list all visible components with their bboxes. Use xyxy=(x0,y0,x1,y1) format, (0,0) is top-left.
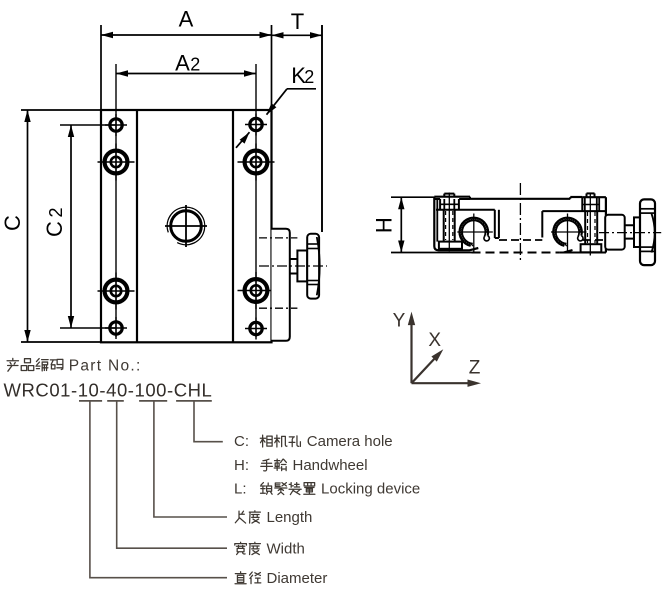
svg-text:H:: H: xyxy=(234,457,249,474)
component : handwheel rim (side view) xyxy=(640,199,655,265)
svg-text:Diameter: Diameter xyxy=(267,570,328,587)
wire : hidden line right of clamp2 dashed xyxy=(583,239,604,241)
component : handwheel shaft (front view) xyxy=(290,259,298,274)
hole : bottom-left counterbored hole xyxy=(98,273,135,310)
screw : right locking screw (side view) xyxy=(581,193,606,256)
wire : leader drop CHL xyxy=(194,401,223,442)
wire : underline bars under code segments xyxy=(79,400,212,402)
node label C : camera hole xyxy=(234,433,393,450)
node axes : coordinate system X Y Z xyxy=(393,310,481,387)
svg-text:2: 2 xyxy=(190,54,200,74)
body : front plate outline xyxy=(101,110,272,342)
hole : bottom-right counterbored hole xyxy=(238,272,275,309)
svg-text:Part No.:: Part No.: xyxy=(69,358,142,375)
wire : vertical center dash-dot line (side view) xyxy=(519,183,521,262)
component : handwheel hub (front view) xyxy=(297,251,307,282)
svg-text:C: C xyxy=(0,215,25,231)
wire : clamp 2 housing bottom foot slant xyxy=(560,250,573,253)
wire : side strip edge x=322 xyxy=(321,25,323,232)
node C2 : dimension label C2 rotated xyxy=(42,207,67,236)
wire : H extension top xyxy=(391,196,434,198)
svg-text:Length: Length xyxy=(267,509,313,526)
wire : C extension top y=110 xyxy=(21,109,101,111)
wire : hidden line between clamps dashed xyxy=(499,239,542,241)
wire : handwheel centerline (side view) xyxy=(599,232,661,234)
component : handwheel mount block (side view) xyxy=(605,215,625,250)
wire : C2 extension top y=125 xyxy=(60,124,116,126)
wire : dimension H line with arrows xyxy=(398,197,404,252)
svg-text:H: H xyxy=(372,217,397,233)
svg-text:Locking device: Locking device xyxy=(321,481,420,498)
node label length xyxy=(235,509,312,526)
svg-text:A: A xyxy=(179,7,194,32)
svg-text:Width: Width xyxy=(267,541,305,558)
svg-text:X: X xyxy=(428,330,441,351)
screw : left locking screw (side view) xyxy=(437,193,462,252)
hole : top-left counterbored hole xyxy=(98,144,135,181)
component : rod clamp C-ring 2 (side view) xyxy=(551,214,587,254)
wire : extension line x=271.5 xyxy=(271,25,273,110)
node label diameter xyxy=(235,570,327,587)
node label width xyxy=(235,541,305,558)
body : side view body outline xyxy=(434,197,606,253)
svg-text:Camera hole: Camera hole xyxy=(307,433,393,450)
wire : dimension C line with arrows xyxy=(24,110,30,342)
wire : hole column centerline right x=256 xyxy=(255,64,257,337)
body : side bracket plate (front view) xyxy=(272,229,290,341)
wire : leader drop diameter xyxy=(90,401,227,578)
wire : leader drop width xyxy=(117,401,227,548)
hole : bottom-right small mounting hole xyxy=(245,318,267,340)
hole : top-left small mounting hole xyxy=(105,114,127,136)
wire : C extension bottom y=342 xyxy=(21,341,101,343)
wire : dimension A line with arrows xyxy=(101,32,272,38)
wire : inner rail line left x=137 xyxy=(136,110,138,342)
svg-text:Handwheel: Handwheel xyxy=(293,457,368,474)
wire : bottom solid right section xyxy=(560,251,606,253)
wire : inner rail line right x=233 xyxy=(232,110,234,342)
node K2 : label K2 with double-arrow leader xyxy=(236,63,316,148)
svg-text:C: C xyxy=(42,221,67,237)
wire : hidden bottom dashed xyxy=(472,252,560,254)
component : rod clamp C-ring 1 (side view) xyxy=(457,214,493,254)
wire : extension line x=101 xyxy=(100,25,102,110)
svg-text:T: T xyxy=(291,9,304,34)
wire : hidden screw centerline upper dash-dot xyxy=(259,237,297,239)
component : handwheel hub (side view) xyxy=(634,217,640,247)
wire : dimension C2 line with arrows xyxy=(68,125,74,328)
component : handwheel rim (front view) xyxy=(307,234,320,299)
wire : dimension A2 line with arrows xyxy=(116,70,256,76)
hole : bottom-left small mounting hole xyxy=(105,317,127,339)
svg-text:2: 2 xyxy=(46,207,66,217)
node label L : locking device xyxy=(234,481,420,498)
wire : hole column centerline left x=116 xyxy=(115,64,117,337)
wire : dimension T line with arrows xyxy=(272,32,323,38)
svg-text:2: 2 xyxy=(304,67,314,87)
hole : top-right counterbored hole xyxy=(238,144,275,181)
svg-text:L:: L: xyxy=(234,481,247,498)
wire : leader drop length xyxy=(154,401,227,517)
node A2 : dimension label A2 xyxy=(175,50,200,75)
hole : top-right small mounting hole (K2) xyxy=(245,114,267,136)
node part-no-header : 产品编码 Part No.: xyxy=(7,358,142,375)
hole : central camera hole C with thread arc xyxy=(165,205,207,247)
wire : handwheel centerline (front view) xyxy=(259,265,327,267)
wire : hidden screw centerline lower dash-dot xyxy=(259,307,297,309)
node label H : handwheel xyxy=(234,457,368,474)
wire : H extension bottom solid part xyxy=(391,252,472,254)
svg-text:C:: C: xyxy=(234,433,249,450)
svg-text:Y: Y xyxy=(393,310,406,331)
svg-text:Z: Z xyxy=(469,358,481,379)
svg-text:WRC01-10-40-100-CHL: WRC01-10-40-100-CHL xyxy=(4,380,213,401)
svg-text:A: A xyxy=(175,50,190,75)
component : handwheel shaft (side view) xyxy=(625,225,634,238)
wire : C2 extension bottom y=328 xyxy=(60,327,116,329)
